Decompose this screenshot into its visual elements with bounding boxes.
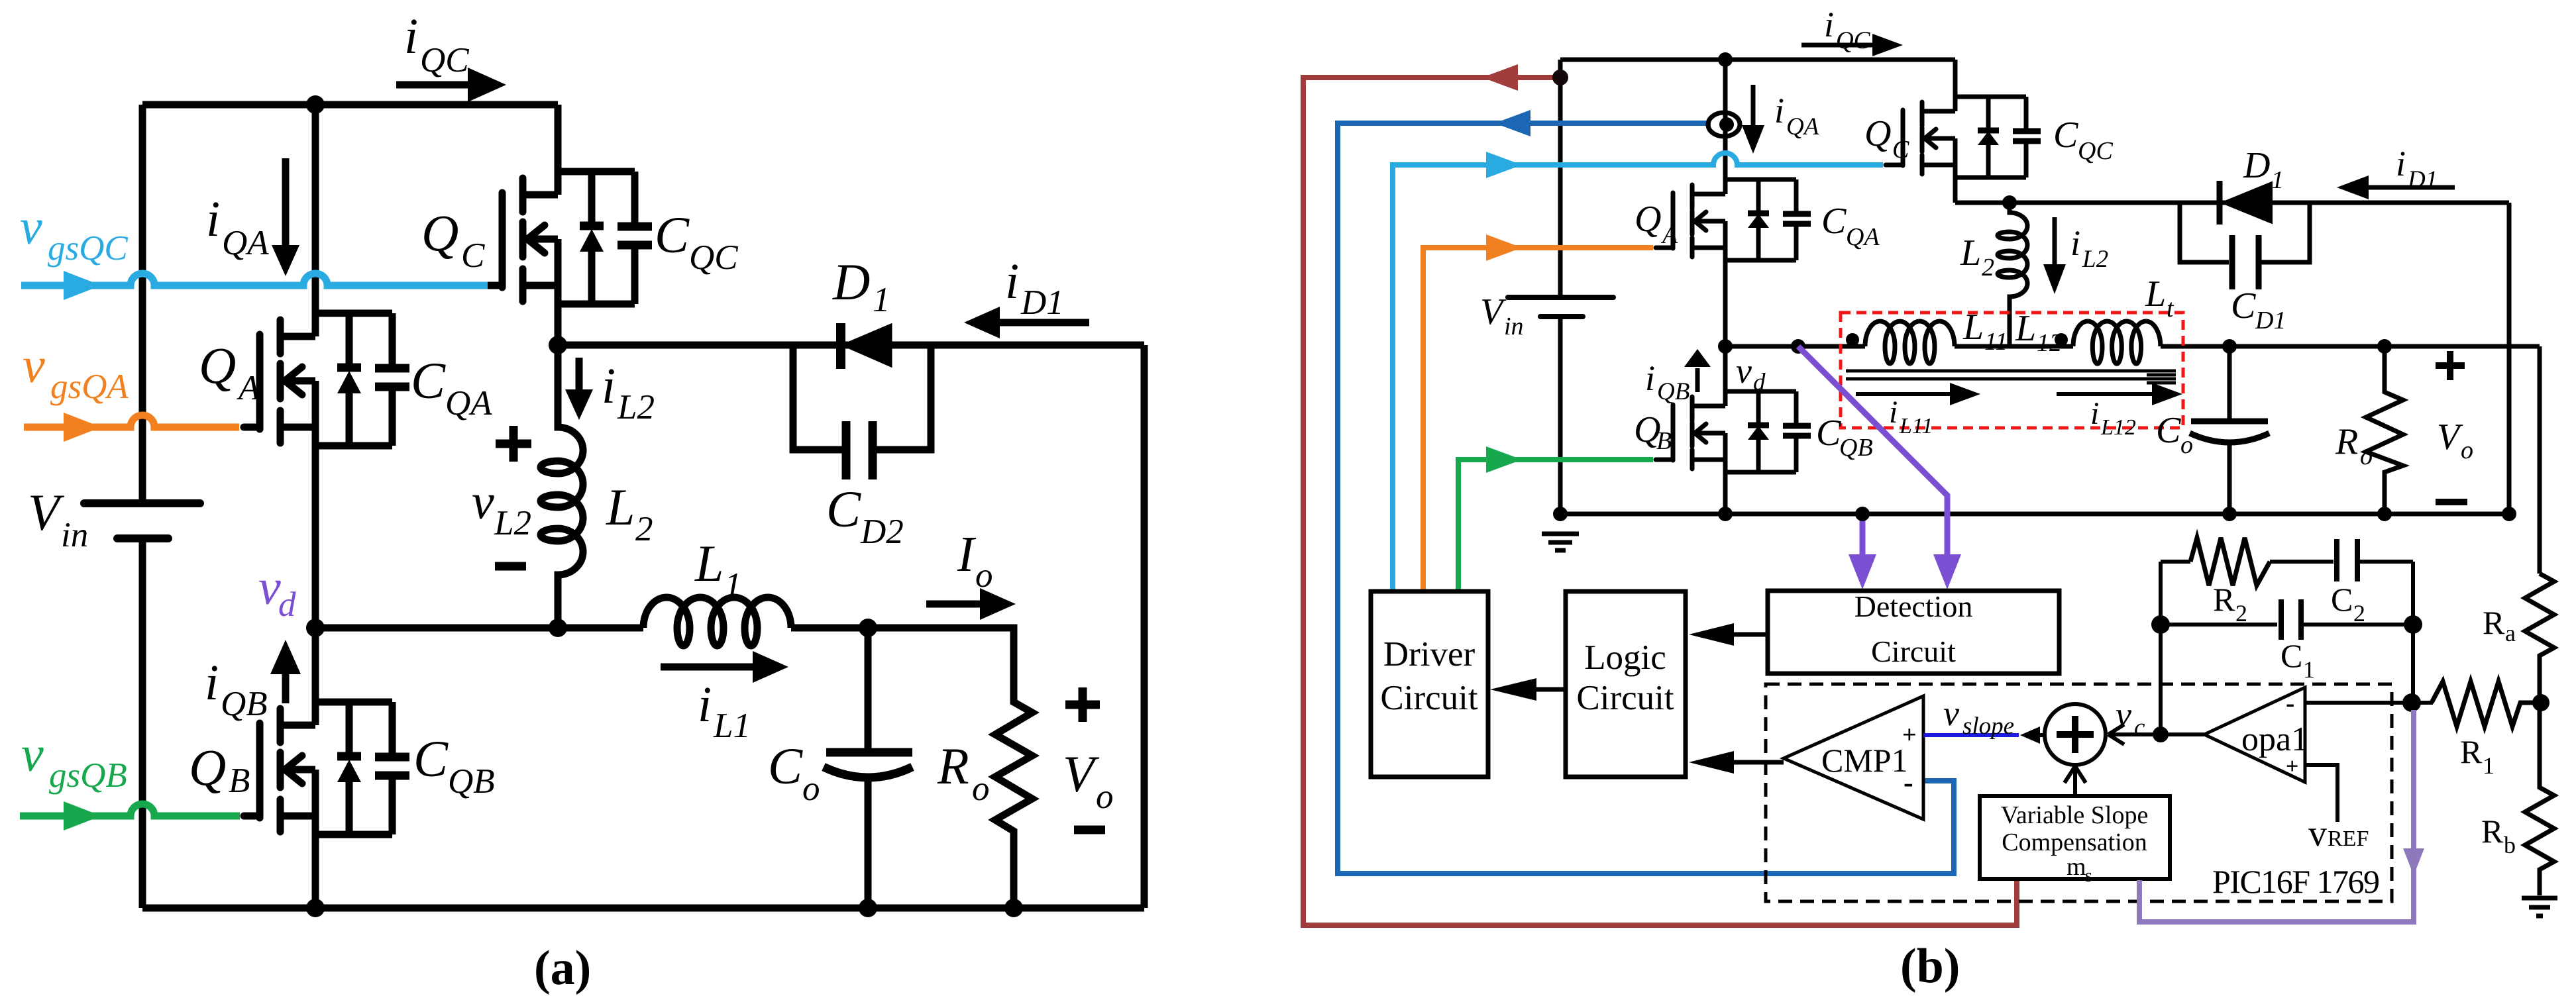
- svg-text:i: i: [206, 191, 220, 247]
- svg-text:in: in: [61, 516, 88, 554]
- label minus Vo a: [1074, 826, 1105, 834]
- svg-text:-: -: [1904, 766, 1913, 799]
- polarity dot L11: [1846, 333, 1859, 346]
- wire Vin vertical bottom b: [1558, 319, 1563, 514]
- svg-text:o: o: [2180, 431, 2193, 459]
- svg-text:o: o: [2461, 436, 2473, 464]
- svg-text:C: C: [413, 730, 449, 787]
- battery Vin b: [1508, 297, 1613, 317]
- svg-text:L2: L2: [2082, 246, 2108, 273]
- svg-text:2: 2: [635, 510, 653, 548]
- arrow iQC a: [396, 68, 506, 102]
- label plus Vo a: [1065, 687, 1100, 722]
- svg-text:L: L: [606, 478, 635, 536]
- node dot Ro bottom: [1004, 899, 1023, 917]
- arrow CMP1 to Logic: [1689, 751, 1784, 774]
- red dashed coupled inductor box Lt: [1841, 313, 2183, 428]
- svg-text:QC: QC: [420, 41, 469, 79]
- svg-text:a: a: [2505, 620, 2516, 646]
- svg-text:Logic: Logic: [1584, 638, 1666, 677]
- wire QC drain b: [1953, 60, 1958, 111]
- svg-text:(a): (a): [534, 941, 591, 995]
- svg-text:C: C: [826, 480, 861, 538]
- purple feedback wire: [2139, 710, 2414, 922]
- svg-text:QA: QA: [1846, 223, 1880, 251]
- svg-text:Q: Q: [1635, 199, 1661, 240]
- inductor L1 a: [643, 597, 791, 646]
- svg-text:R: R: [2335, 421, 2358, 462]
- box Logic Circuit: [1566, 591, 1686, 777]
- svg-text:I: I: [957, 527, 977, 582]
- node dot QB source bus: [1718, 507, 1733, 521]
- node dot Co bottom b: [2222, 507, 2237, 521]
- svg-text:i: i: [602, 358, 616, 414]
- wire QA drain vertical b: [1723, 60, 1728, 194]
- svg-text:Variable Slope: Variable Slope: [2001, 801, 2149, 829]
- node dot QC source: [549, 336, 567, 354]
- svg-text:PIC16F 1769: PIC16F 1769: [2212, 863, 2380, 900]
- svg-text:in: in: [1504, 313, 1524, 340]
- label minus L2: [495, 562, 526, 571]
- dashed box PIC16F1769: [1766, 684, 2392, 901]
- svg-text:C: C: [2331, 581, 2353, 618]
- wire opa1 plus input: [2305, 765, 2337, 822]
- svg-text:D1: D1: [1020, 283, 1064, 322]
- svg-text:opa1: opa1: [2241, 721, 2308, 758]
- svg-text:t: t: [2167, 295, 2174, 323]
- svg-text:o: o: [972, 770, 990, 808]
- svg-text:C: C: [768, 737, 803, 795]
- wire left rail a lower: [139, 541, 146, 908]
- svg-text:c: c: [2134, 714, 2145, 741]
- wire row D1 b: [1955, 201, 2509, 205]
- arrowhead purple feedback: [2403, 848, 2424, 876]
- wire vd row a: [315, 625, 1014, 632]
- arrowhead vgsQA: [64, 413, 101, 442]
- svg-text:A: A: [237, 369, 260, 407]
- arrowhead blue: [1495, 110, 1530, 136]
- svg-text:11: 11: [1984, 328, 2008, 356]
- ground symbol Rb: [2522, 898, 2557, 916]
- svg-text:C: C: [2053, 115, 2078, 156]
- resistor Ra: [2525, 574, 2554, 703]
- arrowhead cyan b: [1486, 152, 1522, 178]
- box Driver Circuit: [1371, 591, 1488, 777]
- svg-text:R: R: [2460, 733, 2483, 770]
- svg-text:C: C: [655, 206, 690, 264]
- svg-text:D: D: [832, 253, 870, 311]
- node dot brown tap: [1552, 70, 1568, 85]
- wire top rail b: [1560, 58, 1955, 62]
- battery Vin a: [84, 503, 200, 538]
- svg-text:(b): (b): [1900, 939, 1960, 993]
- summing junction: [2045, 704, 2106, 765]
- wire D1 return vertical b: [2507, 203, 2512, 514]
- arrow iL2 a: [565, 358, 593, 420]
- opamp opa1: [2204, 687, 2305, 782]
- svg-text:C: C: [411, 352, 446, 409]
- comparator CMP1: [1784, 696, 1923, 819]
- transformer core lines: [1846, 371, 2176, 383]
- svg-text:B: B: [1656, 427, 1672, 455]
- vslope black arrow: [2039, 733, 2046, 737]
- svg-text:L: L: [2015, 308, 2036, 349]
- svg-text:gsQB: gsQB: [49, 756, 127, 795]
- svg-text:12: 12: [2037, 329, 2062, 357]
- svg-text:+: +: [1902, 721, 1917, 749]
- node dot vc: [2153, 727, 2169, 742]
- node dot vd a: [306, 619, 325, 637]
- wire right rail a: [1141, 345, 1148, 908]
- capacitor C1: [2281, 599, 2301, 640]
- svg-text:d: d: [278, 585, 296, 624]
- svg-text:gsQA: gsQA: [50, 368, 129, 406]
- svg-text:QA: QA: [1786, 113, 1819, 140]
- svg-text:R: R: [2481, 813, 2504, 850]
- svg-text:2: 2: [1982, 254, 1994, 281]
- svg-text:i: i: [698, 677, 712, 732]
- svg-text:i: i: [1889, 395, 1898, 430]
- resistor R2: [2190, 538, 2270, 585]
- node dot top a: [306, 95, 325, 114]
- transistor QA b: [1656, 179, 1811, 260]
- polarity dot L12: [2055, 333, 2068, 346]
- svg-text:D1: D1: [2255, 307, 2286, 334]
- arrow iL11: [1856, 383, 1980, 405]
- C1 row wire: [2161, 623, 2413, 627]
- vslope wire blue: [1923, 733, 2019, 737]
- svg-text:Circuit: Circuit: [1871, 634, 1956, 668]
- arrow iQB b: [1684, 349, 1711, 392]
- svg-text:C: C: [1892, 136, 1909, 164]
- svg-text:Q: Q: [1864, 113, 1891, 154]
- svg-text:L: L: [1960, 232, 1981, 274]
- svg-text:QA: QA: [445, 384, 492, 423]
- arrow iQA b: [1742, 85, 1764, 154]
- gate wire vgsQB green: [20, 804, 240, 816]
- svg-text:QA: QA: [222, 224, 269, 262]
- svg-text:QC: QC: [1836, 27, 1871, 54]
- inductor L11: [1865, 321, 1955, 364]
- capacitor C2: [2337, 539, 2357, 581]
- svg-text:D1: D1: [2407, 166, 2438, 193]
- wire row D1 a: [558, 342, 1144, 349]
- cyan gate wire b: [1393, 153, 1883, 591]
- svg-text:v: v: [2308, 813, 2327, 854]
- wire QC drain up: [555, 105, 562, 195]
- node dot vd tap: [1791, 339, 1805, 354]
- node dot purple tap: [1855, 507, 1870, 521]
- wire bottom rail a: [142, 905, 1144, 912]
- svg-text:1: 1: [2483, 752, 2495, 779]
- resistor Ro a: [995, 628, 1032, 908]
- node dot Ro top b: [2377, 339, 2392, 354]
- svg-text:Q: Q: [199, 336, 236, 394]
- svg-text:L12: L12: [2100, 415, 2136, 440]
- svg-text:CMP1: CMP1: [1821, 742, 1908, 779]
- node dot Vin bus: [1553, 507, 1568, 521]
- svg-text:QB: QB: [1657, 378, 1690, 405]
- node dot D1 return bus: [2502, 507, 2516, 521]
- svg-text:s: s: [2085, 866, 2092, 886]
- wire QA source b: [1723, 260, 1728, 346]
- wire QA drain vertical: [312, 105, 319, 336]
- svg-text:i: i: [1645, 358, 1655, 398]
- svg-text:V: V: [1480, 291, 1507, 332]
- transistor QC a: [486, 172, 652, 304]
- current sense loop: [1708, 113, 1740, 136]
- node dot vd b: [1718, 339, 1733, 354]
- resistor Ro b: [2366, 346, 2403, 514]
- svg-text:R: R: [937, 737, 969, 795]
- svg-text:o: o: [1096, 778, 1114, 816]
- arrowhead orange b: [1486, 234, 1522, 261]
- node dots C1 row: [2151, 615, 2170, 634]
- blue current sense wire: [1338, 123, 1954, 874]
- arrow Detection to Logic: [1689, 623, 1768, 646]
- svg-text:1: 1: [724, 566, 742, 605]
- svg-text:V: V: [1063, 745, 1100, 803]
- svg-text:1: 1: [873, 281, 890, 319]
- svg-text:m: m: [2066, 853, 2086, 881]
- wire left rail a upper: [139, 105, 146, 501]
- inductor L2 a: [541, 345, 583, 628]
- arrowhead vgsQC: [64, 271, 101, 300]
- svg-text:D: D: [2243, 145, 2270, 186]
- svg-text:-: -: [2286, 688, 2294, 718]
- wire top rail a: [142, 101, 558, 109]
- svg-text:2: 2: [2353, 600, 2365, 627]
- arrow iQC b: [1801, 34, 1903, 56]
- svg-text:d: d: [1753, 369, 1766, 396]
- node dot Ro bottom b: [2377, 507, 2392, 521]
- svg-text:V: V: [2437, 417, 2463, 458]
- capacitor Co b: [2190, 346, 2269, 514]
- arrowhead vgsQB: [64, 801, 101, 830]
- svg-text:V: V: [28, 483, 65, 541]
- node dot bottom a: [306, 899, 325, 917]
- svg-text:o: o: [802, 770, 820, 808]
- transistor QB b: [1656, 391, 1811, 472]
- svg-text:o: o: [975, 556, 993, 595]
- gate wire vgsQC cyan: [21, 274, 488, 285]
- svg-text:i: i: [205, 655, 219, 711]
- box Variable Slope Compensation: [1980, 796, 2170, 879]
- purple ground sense: [1860, 518, 1866, 556]
- feedback network left rail: [2159, 562, 2163, 734]
- wire Vin vertical top b: [1558, 60, 1563, 295]
- svg-text:2: 2: [2235, 600, 2247, 627]
- arrow iD1 a: [964, 307, 1089, 338]
- transistor QB a: [244, 702, 409, 834]
- arrowhead purple ground: [1849, 554, 1876, 589]
- node dot top b: [1718, 52, 1733, 67]
- svg-text:gsQC: gsQC: [48, 229, 128, 268]
- svg-text:Compensation: Compensation: [2002, 829, 2147, 856]
- svg-text:C: C: [1816, 413, 1841, 454]
- svg-text:i: i: [2070, 223, 2080, 263]
- svg-text:slope: slope: [1962, 713, 2014, 740]
- capacitor CD1 branch: [2180, 203, 2310, 289]
- arrowhead green b: [1486, 446, 1522, 473]
- arrowhead vc open: [2108, 725, 2124, 744]
- svg-text:Detection: Detection: [1854, 589, 1973, 623]
- resistor R1: [2432, 681, 2542, 727]
- svg-text:L1: L1: [713, 707, 751, 745]
- wire output right vertical b: [2538, 346, 2542, 574]
- svg-text:i: i: [1005, 254, 1019, 309]
- svg-text:v: v: [2116, 695, 2131, 734]
- orange gate wire b: [1423, 248, 1653, 591]
- arrow Logic to Driver: [1490, 678, 1566, 701]
- wire output corner a: [868, 628, 1014, 702]
- svg-text:QC: QC: [2078, 137, 2113, 165]
- svg-text:v: v: [20, 199, 42, 255]
- inductor L12: [2073, 321, 2161, 364]
- arrow ms up into summer: [2073, 770, 2077, 797]
- arrow iL12: [2057, 383, 2182, 405]
- svg-text:i: i: [2090, 396, 2099, 431]
- svg-text:+: +: [2286, 754, 2298, 779]
- svg-text:Q: Q: [421, 204, 458, 262]
- svg-text:1: 1: [2271, 166, 2284, 194]
- arrow iL1 a: [661, 651, 788, 683]
- arrow iQA a: [272, 158, 299, 276]
- wire QB drain b: [1723, 346, 1728, 406]
- svg-text:Circuit: Circuit: [1380, 679, 1477, 717]
- svg-text:L: L: [2145, 274, 2166, 315]
- svg-text:B: B: [229, 762, 250, 800]
- svg-text:QB: QB: [448, 762, 495, 801]
- wire vc: [2111, 732, 2204, 736]
- svg-text:L: L: [1962, 307, 1984, 348]
- transistor QA a: [244, 313, 409, 446]
- green gate wire b: [1458, 460, 1653, 591]
- svg-text:v: v: [472, 474, 494, 530]
- node dot Co top b: [2222, 339, 2237, 354]
- wire QC source down: [555, 285, 562, 345]
- capacitor Co a: [824, 628, 912, 908]
- wire QA source down to vd: [312, 427, 319, 628]
- svg-text:C: C: [2231, 285, 2256, 327]
- svg-text:QC: QC: [689, 238, 738, 277]
- arrow iQB a: [270, 640, 301, 703]
- svg-text:C: C: [1821, 201, 1847, 242]
- resistor Rb: [2525, 703, 2554, 895]
- ground bus b: [1560, 512, 2509, 517]
- wire QC source b: [1953, 177, 1958, 203]
- label minus Vo b: [2436, 499, 2467, 505]
- svg-text:QB: QB: [221, 685, 268, 723]
- svg-text:QB: QB: [1839, 434, 1873, 462]
- arrow Io a: [926, 588, 1016, 620]
- purple vd sense diagonal: [1798, 346, 1947, 556]
- svg-text:Q: Q: [189, 738, 226, 796]
- svg-text:R: R: [2213, 581, 2235, 618]
- label plus L2: [496, 426, 531, 462]
- arrow iD1 b: [2337, 176, 2455, 199]
- wire opa1 minus input: [2305, 701, 2433, 705]
- node dot L2 top b: [2002, 195, 2017, 210]
- gate wire vgsQA orange: [24, 415, 239, 427]
- feedback network right rail: [2411, 562, 2415, 701]
- wire QB source b: [1723, 472, 1728, 514]
- svg-text:REF: REF: [2328, 827, 2369, 851]
- R2 C2 top branch: [2161, 560, 2413, 564]
- svg-text:R: R: [2483, 604, 2505, 641]
- ground symbol Vin b: [1542, 534, 1579, 550]
- brown feedforward wire: [1303, 77, 2017, 925]
- svg-text:o: o: [2360, 442, 2373, 470]
- svg-text:Driver: Driver: [1383, 635, 1476, 674]
- svg-text:i: i: [1824, 5, 1834, 44]
- svg-text:1: 1: [2303, 656, 2315, 683]
- node dot Co bottom: [859, 899, 877, 917]
- inductor L2 b: [1998, 203, 2027, 346]
- diode D1 b: [2220, 181, 2272, 225]
- svg-text:b: b: [2504, 832, 2516, 858]
- svg-text:v: v: [23, 338, 45, 393]
- arrowhead purple vd: [1933, 554, 1961, 589]
- node dot Co top: [859, 619, 877, 637]
- svg-text:L2: L2: [494, 504, 531, 542]
- node dot minus rail: [2402, 693, 2421, 712]
- svg-text:L11: L11: [1899, 414, 1933, 438]
- wire QB source down: [312, 816, 319, 908]
- svg-text:v: v: [1736, 351, 1752, 391]
- svg-text:i: i: [1774, 91, 1784, 130]
- svg-text:L: L: [694, 534, 724, 592]
- svg-text:A: A: [1660, 221, 1678, 249]
- svg-text:v: v: [21, 727, 44, 782]
- arrow iL2 b: [2043, 217, 2066, 294]
- svg-text:C: C: [2281, 637, 2302, 674]
- svg-text:C: C: [2156, 410, 2181, 451]
- wire QB drain up to vd: [312, 628, 319, 725]
- svg-text:Circuit: Circuit: [1576, 679, 1674, 717]
- label plus Vo b: [2436, 351, 2465, 380]
- svg-text:v: v: [1943, 693, 1959, 733]
- box Detection Circuit: [1768, 591, 2059, 674]
- capacitor CD2 branch: [793, 345, 931, 479]
- svg-text:i: i: [404, 9, 418, 64]
- node dot feedback divider: [2532, 694, 2549, 711]
- svg-text:v: v: [258, 560, 281, 615]
- wire vd row b: [1725, 344, 2540, 349]
- svg-text:D2: D2: [860, 513, 904, 551]
- node dot L2 bottom: [549, 619, 567, 637]
- svg-text:i: i: [2396, 144, 2406, 183]
- diode D1 a: [841, 323, 891, 369]
- svg-text:C: C: [461, 236, 485, 275]
- arrowhead brown: [1482, 64, 1518, 91]
- svg-text:L2: L2: [617, 388, 655, 427]
- transistor QC b: [1886, 97, 2041, 177]
